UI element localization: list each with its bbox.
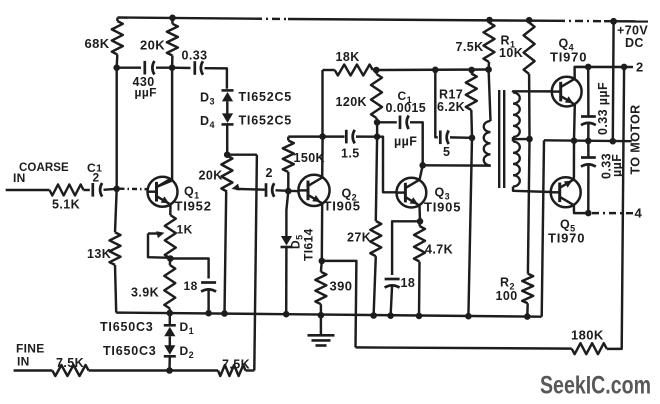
svg-text:TI905: TI905	[424, 200, 461, 215]
resistor 3.9K	[164, 265, 175, 309]
wire to 27K top	[376, 137, 377, 221]
wire 4.7K to rail	[418, 262, 421, 316]
wire 0.33cap1 to row	[587, 123, 590, 141]
svg-text:4.7K: 4.7K	[425, 242, 453, 256]
resistor 68K	[112, 21, 123, 55]
capacitor 2 interstage	[265, 183, 268, 197]
wire tap to R2	[528, 139, 530, 274]
resistor R17 6.2K	[466, 74, 477, 111]
svg-text:2: 2	[636, 60, 644, 75]
wire row to 430 cap	[117, 66, 141, 68]
wire R2 to rail	[526, 303, 529, 316]
wire 7.5K to riser corner	[246, 369, 255, 371]
wire 1K to 3.9K	[169, 259, 172, 266]
wire Q1 base dash-dot	[120, 187, 148, 190]
wire Q4 emitter	[573, 104, 576, 141]
wire 68K bottom lead	[115, 55, 118, 68]
node 120K bottom row	[374, 133, 381, 140]
svg-text:3.9K: 3.9K	[131, 285, 159, 299]
wire 18cap2 to rail	[391, 286, 393, 316]
node Q3 emitter	[417, 218, 424, 225]
node 27K rail	[370, 312, 377, 319]
wire 20K top lead	[171, 18, 174, 24]
capacitor 430uuF	[143, 61, 146, 75]
svg-text:27K: 27K	[347, 230, 371, 244]
resistor 5.1K	[50, 185, 84, 196]
wire emitter row	[544, 139, 632, 142]
transistor Q2 TI905	[298, 175, 329, 206]
wire C1 right lead	[410, 122, 423, 165]
node 0.33cap1 top	[585, 64, 592, 71]
node 18K right	[373, 67, 380, 74]
wire cap5 to R17 node	[450, 136, 472, 139]
wire 27K to rail	[374, 256, 376, 315]
node D5 rail	[283, 311, 290, 318]
wire 18 cap to rail	[207, 290, 209, 314]
svg-text:20K: 20K	[199, 168, 223, 182]
node R17 bottom	[469, 135, 476, 142]
svg-text:IN: IN	[13, 171, 26, 185]
capacitor 18 (Q3)	[385, 278, 400, 281]
resistor 4.7K	[414, 226, 425, 262]
transistor Q1 TI952	[148, 177, 178, 207]
resistor 180K	[572, 343, 607, 354]
svg-text:4: 4	[635, 206, 643, 221]
wire D2 to fine line	[168, 356, 171, 370]
potentiometer 1K	[165, 215, 176, 259]
svg-text:120K: 120K	[336, 95, 367, 109]
wire 180K row left	[356, 347, 572, 348]
wire 68K node down to coarse node	[115, 68, 117, 189]
resistor 20K upper-left	[167, 24, 178, 56]
transistor Q4 TI970	[552, 77, 582, 107]
wire top rail middle segment	[288, 19, 557, 21]
node 20K top	[169, 14, 176, 21]
wire C1 left lead	[377, 121, 397, 123]
transformer primary coil	[484, 121, 491, 166]
svg-text:SeekIC.com: SeekIC.com	[540, 372, 651, 400]
wire 0.33cap2 drop	[587, 141, 590, 157]
wire 1K wiper loop	[148, 234, 170, 258]
wire 70V drop	[612, 21, 615, 141]
wire Q3 base jog	[377, 137, 396, 193]
node 7.5K top	[486, 17, 493, 24]
transistor Q5 TI970	[551, 177, 581, 207]
wire rail to D1	[169, 313, 171, 325]
svg-text:68K: 68K	[85, 36, 110, 51]
wire Q5 collector	[574, 205, 590, 213]
node 6.2K line rail	[465, 313, 472, 320]
capacitor 5	[439, 131, 442, 145]
wire Q2e to 390	[320, 261, 323, 272]
svg-text:5: 5	[443, 145, 450, 159]
svg-text:18K: 18K	[336, 50, 360, 64]
wire 120K top lead	[375, 70, 378, 74]
svg-text:TI652C5: TI652C5	[239, 90, 293, 104]
node Q3 collector	[419, 162, 426, 169]
wire 7.5K bottom lead	[487, 62, 490, 70]
svg-text:TI650C3: TI650C3	[103, 344, 157, 358]
transistor Q3 TI905	[397, 178, 427, 208]
node +70V	[610, 18, 617, 25]
node 70V row	[610, 138, 617, 145]
wire 180K row right	[607, 67, 624, 349]
wire Q3coll row	[423, 164, 491, 167]
wire secondary tap gap	[512, 137, 514, 142]
transformer core line 2	[503, 90, 505, 188]
wire 6.2K line to rail	[468, 138, 472, 316]
wire bias rail	[116, 313, 542, 317]
svg-text:TO MOTOR: TO MOTOR	[629, 104, 643, 174]
wire Q3e to 18cap2	[392, 221, 420, 275]
transformer secondary coil upper	[513, 93, 520, 138]
wire emitter row drop	[542, 140, 544, 316]
svg-text:TI905: TI905	[324, 199, 361, 214]
node C1 left	[374, 119, 381, 126]
node 0.33 caps row	[585, 138, 592, 145]
diode D1 TI650C3	[164, 324, 176, 327]
svg-text:FINE: FINE	[16, 341, 45, 355]
wire 150K top corner	[287, 137, 289, 141]
svg-text:DC: DC	[625, 36, 644, 50]
ground	[320, 315, 322, 334]
wire 18K left lead	[323, 69, 335, 71]
wire 150K bottom lead	[287, 172, 289, 191]
node 3.9K/D1 rail	[167, 310, 174, 317]
svg-text:7.5K: 7.5K	[222, 357, 250, 371]
wire 0.33cap2 to out4	[587, 165, 590, 214]
capacitor C1 0.0015uuF	[399, 116, 402, 130]
wire fine input lead	[14, 369, 53, 371]
svg-text:µµF: µµF	[394, 134, 417, 148]
node 4.7K rail	[416, 313, 423, 320]
svg-text:1K: 1K	[177, 222, 193, 236]
wire Q2 emitter	[321, 203, 324, 261]
svg-text:6.2K: 6.2K	[437, 100, 465, 114]
node fine junction	[166, 367, 173, 374]
wire y70 row	[376, 68, 488, 71]
svg-text:20K: 20K	[140, 38, 165, 53]
svg-text:18: 18	[401, 276, 416, 290]
resistor 18K	[335, 65, 373, 76]
node center tap	[526, 136, 533, 143]
resistor 7.5K fine right	[218, 365, 246, 376]
potentiometer 20K	[221, 156, 232, 192]
svg-text:5.1K: 5.1K	[52, 198, 80, 212]
wire Q3e to 4.7K	[418, 221, 421, 226]
node 68K/coupling row	[113, 64, 120, 71]
wire pot top row	[227, 153, 257, 155]
wire pot bottom to rail	[225, 192, 227, 314]
diode D4 TI652C5	[222, 123, 234, 126]
resistor 27K	[370, 221, 381, 256]
wire Q4 collector	[575, 67, 633, 79]
diode D5 TI614	[281, 246, 293, 249]
node R1 top	[526, 17, 533, 24]
wire 13K to bias rail	[115, 265, 116, 313]
svg-text:COARSE: COARSE	[19, 162, 69, 174]
wire secondary top to Q4 base	[513, 91, 552, 92]
svg-text:150K: 150K	[294, 151, 325, 165]
svg-text:µµF: µµF	[610, 154, 624, 177]
node Q2 base / D5	[285, 188, 292, 195]
wire 7.5K to D2 node	[89, 369, 170, 371]
wire C1 to node	[104, 189, 117, 190]
node cap5 top	[432, 67, 439, 74]
wire secondary bottom to Q5 base	[513, 187, 551, 193]
wire 120K bottom lead	[375, 118, 378, 122]
diode D3 TI652C5	[222, 89, 234, 92]
node out4 cap	[585, 210, 592, 217]
node 20Kpot rail	[221, 310, 228, 317]
resistor 390	[315, 272, 326, 304]
diode D2 TI650C3	[164, 355, 176, 358]
node R17 top	[468, 67, 475, 74]
wire Q2 collector	[321, 137, 324, 178]
wire 0.33 cap to D3 corner	[205, 68, 227, 89]
wire 120K node down	[376, 122, 378, 136]
wire R1 to tap	[528, 74, 531, 139]
node 7.5K bottom	[485, 66, 492, 73]
wire D4 to pot top	[226, 124, 228, 154]
wire top rail dash-dot segment 2	[557, 20, 604, 23]
svg-text:TI650C3: TI650C3	[100, 320, 154, 334]
wire R17 top lead	[470, 70, 473, 74]
wire 150K to Q2coll node	[288, 135, 322, 137]
node coarse junction	[113, 186, 120, 193]
node Q1 collector row	[169, 64, 176, 71]
wire node to 0.33 cap	[172, 66, 190, 69]
svg-text:µµF: µµF	[135, 86, 157, 100]
resistor R1 10K	[524, 23, 535, 75]
wire 430 cap to node	[156, 66, 172, 68]
wire D5 to rail	[285, 247, 288, 314]
wire top rail right segment	[604, 20, 648, 23]
node 18cap2 rail	[387, 312, 394, 319]
resistor 120K	[371, 74, 382, 118]
wire Q1 emitter lead	[169, 204, 172, 215]
svg-text:7.5K: 7.5K	[56, 356, 84, 370]
svg-text:0.33 µµF: 0.33 µµF	[596, 82, 610, 135]
wire Q5 emitter	[573, 141, 576, 180]
wire coarse node to 13K	[115, 189, 117, 233]
wire top rail left segment	[118, 18, 255, 19]
svg-text:180K: 180K	[571, 327, 604, 342]
svg-text:100: 100	[496, 289, 518, 303]
svg-text:13K: 13K	[87, 247, 111, 261]
node 390/ground rail	[318, 312, 325, 319]
wire 20K bottom lead	[171, 56, 174, 68]
wire R17 bottom lead	[470, 110, 473, 138]
wiper arrow 1K	[148, 232, 160, 234]
svg-text:TI952: TI952	[175, 199, 212, 214]
svg-text:IN: IN	[17, 355, 30, 369]
transformer secondary coil lower	[513, 142, 520, 187]
capacitor 0.33	[193, 61, 196, 75]
wire feedback down	[322, 261, 357, 348]
wire D5 triangle lead	[285, 226, 287, 237]
svg-text:7.5K: 7.5K	[456, 40, 484, 54]
wire 3.9K to rail	[169, 309, 171, 314]
node 1K bottom	[167, 255, 174, 262]
wire 5.1K to C1	[84, 189, 90, 191]
node pot top	[224, 151, 231, 158]
wire top rail dash-dot segment	[254, 17, 288, 20]
node Q4/Q5 row	[571, 137, 578, 144]
node Q2 emitter	[319, 258, 326, 265]
capacitor 1.5	[345, 130, 348, 144]
wire fine node to 7.5K	[170, 369, 219, 371]
wire 1.5cap to 120K node	[356, 135, 377, 138]
transformer core line 1	[498, 90, 500, 188]
resistor 13K	[110, 232, 121, 265]
wire 18K left corner	[321, 70, 323, 137]
wire 18K right lead	[373, 69, 377, 71]
wire D1 to D2	[169, 336, 171, 346]
svg-text:TI970: TI970	[550, 49, 587, 64]
svg-text:2: 2	[266, 166, 273, 180]
resistor 7.5K fine left	[52, 365, 88, 376]
wire center tap	[513, 138, 530, 141]
svg-text:TI970: TI970	[548, 230, 585, 245]
node out2	[621, 64, 628, 71]
wire out4 dash-dot	[592, 212, 633, 215]
wire Q3 emitter	[418, 205, 421, 221]
wire Q3 collector	[420, 165, 423, 180]
wire Q2coll node to 1.5cap	[323, 135, 345, 137]
svg-text:18: 18	[184, 279, 198, 293]
capacitor 0.33uuF upper	[581, 115, 596, 118]
resistor 150K	[283, 141, 294, 173]
svg-text:0.33: 0.33	[182, 49, 208, 63]
svg-text:TI652C5: TI652C5	[239, 114, 293, 128]
resistor 7.5K upper	[484, 23, 495, 63]
wire 390 to rail	[320, 304, 322, 315]
svg-text:10K: 10K	[499, 46, 523, 60]
wiper arrow 20K	[236, 188, 265, 191]
node R2 rail	[524, 313, 531, 320]
svg-text:2: 2	[93, 170, 100, 184]
node 18cap rail	[205, 310, 212, 317]
svg-text:1.5: 1.5	[341, 146, 360, 160]
wire D3 to D4	[226, 101, 228, 114]
svg-text:0.0015: 0.0015	[386, 101, 427, 115]
wire 68K top lead	[116, 18, 119, 22]
svg-text:TI614: TI614	[302, 228, 316, 261]
wire 2cap to Q2 base	[276, 189, 299, 192]
wire coarse input lead	[6, 189, 50, 191]
wire cap5 drop	[435, 70, 438, 138]
wire Q1 collector	[158, 68, 173, 187]
wire Q2base node to D5	[286, 191, 288, 225]
node Q2 collector	[319, 133, 326, 140]
capacitor C1 coupling	[91, 183, 94, 197]
wire primary feed	[489, 70, 491, 122]
capacitor 18 (Q1)	[201, 281, 216, 284]
wire 1K node to 18 cap	[170, 259, 208, 279]
svg-text:390: 390	[330, 278, 353, 293]
capacitor 0.33uuF lower	[581, 156, 596, 159]
wire 0.33cap1 drop	[587, 67, 590, 116]
resistor R2 100	[522, 274, 533, 304]
wire fine riser	[254, 155, 257, 371]
